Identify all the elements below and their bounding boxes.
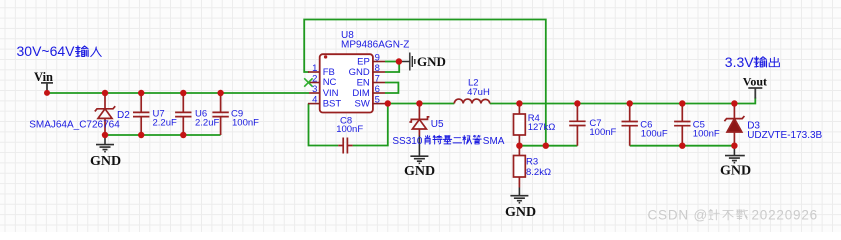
svg-text:6: 6: [375, 84, 380, 95]
svg-text:3: 3: [312, 84, 317, 95]
svg-text:3.3V: 3.3V: [725, 54, 754, 70]
svg-text:7: 7: [375, 74, 380, 85]
svg-text:SMA: SMA: [483, 136, 505, 147]
svg-text:SMAJ64A_C726764: SMAJ64A_C726764: [29, 120, 120, 131]
svg-text:GND: GND: [505, 205, 536, 220]
svg-text:GND: GND: [90, 154, 121, 169]
svg-text:4: 4: [312, 95, 317, 106]
svg-text:R3: R3: [526, 157, 538, 168]
svg-text:FB: FB: [323, 67, 335, 78]
svg-text:SW: SW: [354, 98, 369, 109]
svg-text:EN: EN: [357, 77, 370, 88]
svg-text:SS310: SS310: [392, 136, 422, 147]
svg-text:20220926: 20220926: [752, 208, 818, 223]
svg-text:2.2uF: 2.2uF: [195, 118, 219, 129]
svg-text:100nF: 100nF: [336, 124, 363, 135]
svg-text:8: 8: [375, 63, 380, 74]
svg-text:GND: GND: [417, 54, 446, 69]
svg-text:EP: EP: [357, 56, 370, 67]
svg-text:47uH: 47uH: [467, 87, 490, 98]
svg-text:127kΩ: 127kΩ: [528, 122, 556, 133]
svg-text:GND: GND: [404, 164, 435, 179]
svg-text:2.2uF: 2.2uF: [153, 118, 177, 129]
svg-text:MP9486AGN-Z: MP9486AGN-Z: [341, 39, 409, 50]
svg-text:Vin: Vin: [34, 70, 53, 84]
svg-text:100nF: 100nF: [693, 129, 720, 140]
svg-text:CSDN @: CSDN @: [648, 208, 709, 223]
svg-text:GND: GND: [349, 67, 370, 78]
svg-text:8.2kΩ: 8.2kΩ: [526, 167, 551, 178]
svg-text:100uF: 100uF: [641, 129, 668, 140]
svg-text:2: 2: [312, 73, 317, 84]
svg-text:U5: U5: [431, 119, 444, 130]
svg-text:9: 9: [375, 52, 380, 63]
svg-text:NC: NC: [323, 77, 337, 88]
svg-text:100nF: 100nF: [232, 118, 259, 129]
svg-text:Vout: Vout: [743, 75, 767, 89]
svg-text:1: 1: [312, 63, 317, 74]
svg-text:VIN: VIN: [323, 88, 339, 99]
svg-text:GND: GND: [720, 164, 751, 179]
svg-text:DIM: DIM: [352, 88, 370, 99]
svg-text:UDZVTE-173.3B: UDZVTE-173.3B: [747, 130, 822, 141]
svg-text:5: 5: [375, 95, 380, 106]
svg-text:100nF: 100nF: [589, 127, 616, 138]
svg-text:30V~64V: 30V~64V: [17, 43, 76, 59]
svg-text:BST: BST: [323, 98, 342, 109]
